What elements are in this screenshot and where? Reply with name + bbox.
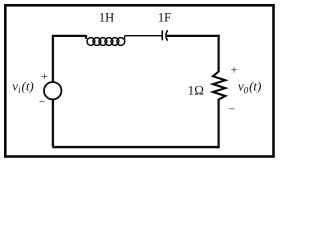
svg-text:vi(t): vi(t) [12, 79, 33, 96]
svg-text:v0(t): v0(t) [238, 79, 261, 96]
voltage source V1 [44, 82, 61, 99]
svg-text:+: + [41, 69, 48, 83]
wire between inductor and capacitor [125, 36, 162, 40]
wire left vertical lower [52, 99, 54, 146]
wire left vertical upper [52, 35, 54, 83]
wire capacitor to top-right corner [167, 35, 220, 37]
svg-text:1F: 1F [158, 11, 171, 25]
svg-text:1Ω: 1Ω [188, 82, 205, 97]
wire right vertical upper [218, 35, 220, 72]
svg-text:−: − [39, 96, 45, 108]
wire top-left segment [52, 35, 86, 39]
inductor L1 [87, 38, 125, 46]
svg-text:−: − [229, 104, 235, 116]
capacitor C1 [162, 30, 167, 41]
svg-text:+: + [231, 63, 238, 77]
wire bottom [52, 146, 219, 148]
svg-text:1H: 1H [99, 11, 114, 25]
wire right vertical lower [218, 99, 220, 148]
resistor R1 [213, 72, 225, 100]
